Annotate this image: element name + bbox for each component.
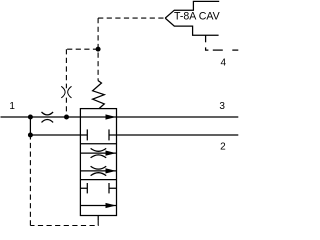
- svg-text:2: 2: [220, 142, 226, 153]
- svg-text:1: 1: [9, 101, 15, 112]
- svg-text:3: 3: [219, 101, 225, 112]
- svg-text:4: 4: [221, 58, 227, 69]
- svg-text:T-8A CAV: T-8A CAV: [174, 11, 221, 23]
